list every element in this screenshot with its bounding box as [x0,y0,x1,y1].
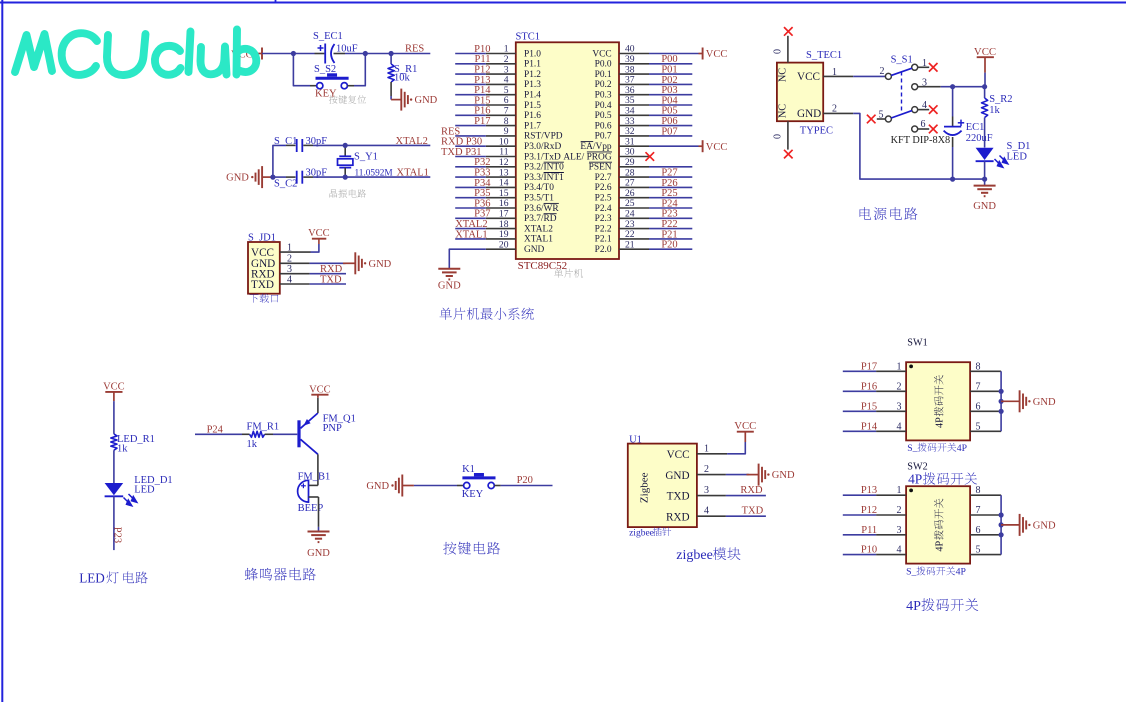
svg-text:P2.6: P2.6 [595,183,612,193]
wire collector to buzzer [309,454,318,485]
svg-text:VCC: VCC [251,247,274,259]
svg-text:P20: P20 [517,475,533,486]
led S_D1 [976,141,1031,179]
svg-text:Zigbee: Zigbee [639,472,651,503]
mcu left pins wires and labels [455,44,516,251]
pin 3 wire P11 (SW2) [843,525,906,536]
svg-text:S_S2: S_S2 [314,64,336,75]
pin 6 wire (SW2) [970,525,1001,536]
svg-text:S_: S_ [907,443,917,454]
svg-text:TXD: TXD [320,274,342,285]
transistor FM_Q1 PNP [299,398,356,455]
connector S_TEC1 TYPEC body [777,50,842,137]
pin20 wire to ground [449,249,486,267]
svg-text:P1.0: P1.0 [524,49,541,59]
mcu pin names [524,49,612,255]
svg-text:VCC: VCC [706,142,728,153]
svg-text:P1.6: P1.6 [524,111,541,121]
wire gnd junction to C2 [273,176,296,178]
net label XTAL1 [397,168,429,179]
svg-text:P23: P23 [112,527,123,543]
svg-text:P0.2: P0.2 [595,80,612,90]
svg-text:XTAL1: XTAL1 [455,229,487,240]
svg-text:P2.5: P2.5 [595,194,612,204]
svg-text:TXD: TXD [251,279,274,291]
pin 5 wire (SW1) [970,421,1001,432]
power port VCC (JD1) [308,228,330,244]
capacitor EC1 220uF [944,87,993,179]
svg-text:4P: 4P [906,599,921,614]
svg-text:P1.3: P1.3 [524,80,541,90]
svg-text:4P: 4P [957,443,967,454]
svg-text:P0.1: P0.1 [595,70,612,80]
svg-text:RXD: RXD [666,511,690,523]
svg-text:5: 5 [976,545,981,556]
mcu right pins wires and labels [619,44,692,251]
svg-text:P0.7: P0.7 [595,132,612,142]
net label RES [405,44,424,55]
svg-text:FM_R1: FM_R1 [247,421,280,432]
wire parallel branch right [347,54,365,86]
svg-text:VCC: VCC [797,71,820,83]
svg-text:P0.4: P0.4 [595,101,612,111]
svg-text:VCC: VCC [309,384,331,395]
MCUclub logo [15,30,256,76]
svg-text:GND: GND [524,245,545,255]
title 4P拨码开关 (upper) [908,472,977,487]
ground GND (SW2) [1001,514,1056,536]
net label XTAL2 [396,136,428,147]
svg-text:P16: P16 [861,381,877,392]
ground GND (zigbee) [747,464,795,486]
power port VCC (power circuit) [974,46,996,87]
wire VCC to C/S junctions [262,53,315,55]
svg-text:GND: GND [973,201,996,212]
pin 0 bottom no-connect [773,121,793,158]
label zigbee插针 [629,527,671,538]
net label TXD P31 wire pin11 [441,147,486,158]
svg-text:SW1: SW1 [907,338,927,349]
svg-text:P15: P15 [861,401,877,412]
pin 7 wire (SW1) [970,381,1001,392]
pin29 wire [649,166,692,168]
mcu U STC1 body [516,32,620,260]
pin31 wire to VCC [649,140,727,153]
module U1 zigbee body [628,434,697,527]
buzzer FM_B1 BEEP [298,471,331,514]
svg-text:3: 3 [897,525,902,536]
svg-text:zigbee: zigbee [629,528,654,538]
wire gnd to key [414,485,464,487]
pin 6 wire (SW1) [970,401,1001,412]
switch S_S1 KFT DIP-8X8 [867,55,950,147]
pin 8 wire (SW2) [970,485,1001,496]
svg-text:6: 6 [976,525,981,536]
svg-text:1k: 1k [247,439,258,450]
title LED灯电路 [79,571,148,586]
pin 2 wire P12 (SW2) [843,505,906,516]
power port VCC (buzzer) [309,384,331,397]
svg-text:GND: GND [415,95,438,106]
node junctions reset net [291,51,394,56]
wire key to P20 [494,475,552,486]
svg-text:VCC: VCC [103,381,125,392]
pin 1 wire P17 (SW1) [843,361,906,372]
wire C1 to XTAL2 [303,144,430,146]
svg-text:VCC: VCC [592,49,611,59]
svg-text:KFT DIP-8X8: KFT DIP-8X8 [891,135,951,146]
svg-text:KEY: KEY [315,89,337,100]
power port VCC (zigbee) [734,420,756,442]
svg-text:RXD: RXD [740,485,763,496]
pin 1 wire to VCC [280,243,319,254]
svg-text:TXD P31: TXD P31 [441,147,482,158]
svg-text:7: 7 [976,505,981,516]
resistor LED_R1 1k [111,434,155,455]
svg-text:BEEP: BEEP [298,503,324,514]
svg-text:RST/VPD: RST/VPD [524,132,563,142]
svg-text:GND: GND [307,548,330,559]
svg-text:10k: 10k [394,73,411,84]
ground GND (SW1) [1001,390,1056,412]
ground GND (power) [973,179,996,212]
svg-text:P1.1: P1.1 [524,60,541,70]
svg-text:P2.0: P2.0 [595,245,612,255]
svg-text:P0.6: P0.6 [595,121,612,131]
svg-text:P1.4: P1.4 [524,91,541,101]
svg-text:VCC: VCC [667,449,690,461]
net label P23 [112,527,123,543]
label S_拨码开关4P (SW2) [906,566,966,577]
node junctions power [950,84,987,182]
sheet border left [1,0,3,702]
pin 3 wire P15 (SW1) [843,401,906,412]
svg-text:S_C1: S_C1 [274,136,297,147]
svg-text:TYPEC: TYPEC [800,126,833,137]
svg-text:P0.3: P0.3 [595,91,612,101]
svg-text:P11: P11 [861,525,877,536]
svg-text:7: 7 [976,381,981,392]
svg-text:KEY: KEY [462,489,484,500]
wire cap to RES junction [345,53,430,55]
svg-text:4: 4 [897,545,902,556]
svg-text:P2.1: P2.1 [595,235,612,245]
pin 1 wire P13 (SW2) [843,485,906,496]
svg-text:P17: P17 [861,361,877,372]
ground GND (mcu) [438,268,461,292]
svg-text:TXD: TXD [742,506,764,517]
svg-text:P2.3: P2.3 [595,214,612,224]
resistor S_R1 10k [388,54,417,84]
sheet border top [0,0,1126,4]
label STC89C52 [518,260,568,272]
svg-text:P3.4/T0: P3.4/T0 [524,183,554,193]
power port VCC (reset) [231,48,262,61]
svg-text:P0.5: P0.5 [595,111,612,121]
svg-text:P14: P14 [861,421,878,432]
switch K1 KEY [462,464,496,500]
pin 1 wire to switch [823,67,885,78]
pin 8 wire (SW1) [970,361,1001,372]
svg-text:SW2: SW2 [907,462,927,473]
capacitor S_EC1 10uF [313,31,358,64]
svg-text:6: 6 [976,401,981,412]
svg-text:P3.6/WR: P3.6/WR [524,204,559,214]
svg-text:VCC: VCC [974,46,996,58]
svg-text:VCC: VCC [706,49,728,60]
title 按键电路 [443,542,500,555]
svg-text:zigbee: zigbee [676,548,713,563]
svg-text:P3.7/RD: P3.7/RD [524,214,557,224]
svg-text:XTAL2: XTAL2 [524,224,553,234]
ground GND (crystal) [226,166,273,188]
svg-text:GND: GND [665,470,689,482]
svg-text:1: 1 [897,361,902,372]
svg-text:2: 2 [897,505,902,516]
svg-text:S_EC1: S_EC1 [313,31,343,42]
svg-text:1: 1 [897,485,902,496]
pin 2 wire to GND [280,254,346,265]
wire buzzer to ground [309,497,319,527]
svg-text:3: 3 [704,485,709,496]
pin 3 wire RXD [280,264,346,275]
title 蜂鸣器电路 [245,568,316,581]
pin 4 wire P10 (SW2) [843,545,906,556]
label S_拨码开关4P (SW1) [907,443,967,454]
svg-text:S_S1: S_S1 [891,55,913,66]
svg-text:P1.7: P1.7 [524,121,541,131]
resistor S_R2 1k [982,87,1013,148]
svg-text:0: 0 [773,49,784,54]
pin 3 wire to VCC rail [918,86,985,88]
svg-text:GND: GND [1033,397,1056,408]
svg-text:3: 3 [897,401,902,412]
svg-text:EA/Vpp: EA/Vpp [580,142,612,152]
svg-text:XTAL1: XTAL1 [397,168,429,179]
wire parallel branch left [293,54,316,86]
svg-text:LED: LED [79,571,105,586]
svg-text:P3.3/INT1: P3.3/INT1 [524,173,564,183]
net label P24 wire [195,424,242,435]
label 单片机 [554,269,583,278]
net label XTAL1 wire pin19 [455,229,487,240]
svg-text:VCC: VCC [734,420,756,432]
svg-text:GND: GND [772,470,795,481]
pin 2 wire P16 (SW1) [843,381,906,392]
svg-text:P13: P13 [861,485,877,496]
svg-text:P3.5/T1: P3.5/T1 [524,194,554,204]
svg-text:2: 2 [897,381,902,392]
ground GND (JD1) [343,252,392,274]
svg-text:XTAL2: XTAL2 [396,136,428,147]
svg-text:P17: P17 [474,116,490,127]
wire R1 to LED [113,450,115,483]
svg-text:NC: NC [778,104,789,118]
net label RXD P30 wire pin10 [441,137,486,148]
svg-text:P07: P07 [661,126,677,137]
pin 1 wire to VCC (zigbee) [697,442,745,454]
label 下载口 [249,294,278,303]
svg-text:4P: 4P [908,472,922,487]
svg-text:PNP: PNP [323,423,342,434]
svg-text:TXD: TXD [667,491,690,503]
svg-text:P3.0/RxD: P3.0/RxD [524,142,561,152]
label 按键复位 [329,95,366,104]
svg-text:1: 1 [704,443,709,454]
svg-text:0: 0 [773,134,784,139]
svg-text:S_: S_ [906,567,916,578]
svg-text:P1.2: P1.2 [524,70,541,80]
pin 4 wire TXD [280,274,346,285]
svg-text:220uF: 220uF [966,133,993,144]
wire LED to P23 [113,496,115,550]
svg-text:1k: 1k [989,105,1000,116]
svg-text:4P: 4P [935,541,946,552]
svg-text:ALE/ PROG: ALE/ PROG [563,152,611,162]
svg-text:GND: GND [369,259,392,270]
svg-text:P20: P20 [661,240,677,251]
wire gnd bus (SW2) [999,495,1004,554]
svg-text:GND: GND [797,108,821,120]
title 4P拨码开关 (lower) [906,598,978,614]
node junctions crystal [270,143,348,180]
svg-text:P24: P24 [207,424,224,435]
svg-text:XTAL1: XTAL1 [524,235,553,245]
led LED_D1 [105,475,173,506]
svg-text:P3.1/TxD: P3.1/TxD [524,152,561,162]
wire R1 to ground [390,82,392,100]
net label XTAL2 wire pin18 [455,219,487,230]
svg-text:2: 2 [880,66,885,77]
pin 2 wire to GND (zigbee) [697,464,749,475]
switch S_S2 KEY [314,64,349,100]
title 电源电路 [860,207,918,220]
ground GND (buzzer) [307,527,330,559]
wire gnd junction up to C1 [273,145,296,177]
svg-text:8: 8 [976,361,981,372]
svg-text:GND: GND [438,280,461,291]
svg-text:P3.2/INT0: P3.2/INT0 [524,163,564,173]
title zigbee模块 [676,547,740,563]
capacitor S_C1 30pF [274,136,327,152]
svg-text:20: 20 [499,239,509,250]
pin 0 top no-connect [773,27,793,63]
pin40 wire to VCC [649,48,727,61]
svg-text:4: 4 [897,421,902,432]
ground GND (reset) [391,89,438,111]
svg-text:8: 8 [976,485,981,496]
svg-text:P10: P10 [861,545,877,556]
title 单片机最小系统 [440,308,534,320]
net label RES wire pin9 [441,126,486,137]
pin 3 wire RXD (zigbee) [697,485,766,496]
label 晶振电路 [329,189,366,198]
svg-text:S_D1: S_D1 [1007,141,1031,152]
svg-text:11.0592M: 11.0592M [355,169,393,179]
resistor FM_R1 1k [242,421,297,450]
pin 2 wire to bottom rail [823,104,984,180]
svg-text:LED: LED [134,485,155,496]
svg-text:VCC: VCC [308,228,330,239]
pin 4 wire TXD (zigbee) [697,506,766,517]
svg-text:4P: 4P [935,417,946,428]
svg-text:GND: GND [366,481,389,492]
ground GND (key) [366,475,414,497]
svg-text:RES: RES [405,44,424,55]
svg-text:GND: GND [226,173,249,184]
svg-text:P2.4: P2.4 [595,204,612,214]
pin 4 wire P14 (SW1) [843,421,906,432]
svg-text:2: 2 [704,464,709,475]
svg-text:4P: 4P [956,567,966,578]
svg-text:P2.7: P2.7 [595,173,612,183]
wire gnd bus (SW1) [999,371,1004,431]
svg-text:S_C2: S_C2 [274,179,297,190]
svg-text:GND: GND [1033,521,1056,532]
power port VCC (led) [103,381,125,434]
wire C2 to XTAL1 [303,176,430,178]
svg-text:P12: P12 [861,505,877,516]
svg-text:LED: LED [1007,152,1028,163]
svg-text:S_R2: S_R2 [989,94,1012,105]
svg-text:NC: NC [778,68,789,82]
svg-text:S_TEC1: S_TEC1 [806,50,842,61]
svg-text:EC1: EC1 [966,122,985,133]
svg-text:P1.5: P1.5 [524,101,541,111]
dip switch SW1 body [906,338,970,441]
svg-text:S_Y1: S_Y1 [354,152,378,163]
svg-text:K1: K1 [462,464,475,475]
pin 7 wire (SW2) [970,505,1001,516]
pin30 no-connect X [646,152,655,161]
svg-text:P0.0: P0.0 [595,60,612,70]
crystal S_Y1 11.0592M [338,145,393,178]
svg-text:21: 21 [625,239,635,250]
svg-text:P2.2: P2.2 [595,224,612,234]
svg-text:FM_B1: FM_B1 [298,471,331,482]
svg-text:1k: 1k [117,444,128,455]
dip switch SW2 body [906,462,970,564]
svg-text:5: 5 [976,421,981,432]
pin 5 wire (SW2) [970,545,1001,556]
connector S_JD1 [248,233,280,294]
svg-text:PSEN: PSEN [589,163,612,173]
capacitor S_C2 30pF [274,168,327,190]
svg-text:4: 4 [704,506,709,517]
svg-text:STC1: STC1 [516,32,541,43]
